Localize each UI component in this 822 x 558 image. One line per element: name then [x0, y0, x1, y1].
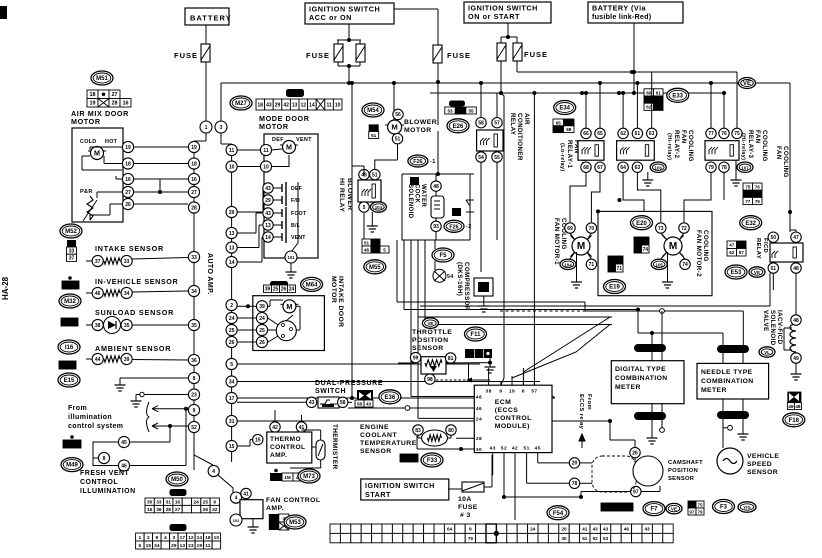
wire bus5 horizontal [237, 363, 480, 365]
wire ECM pin46 left [348, 407, 474, 409]
svg-text:E15: E15 [64, 378, 75, 384]
svg-text:5: 5 [230, 362, 233, 368]
svg-text:TEMPERATURE: TEMPERATURE [360, 440, 417, 447]
svg-text:VENT: VENT [291, 235, 306, 241]
wire to pin 78 [527, 482, 569, 484]
ignition switch ACC box [305, 3, 394, 24]
connector grid 43 [282, 473, 304, 481]
svg-text:NM: NM [729, 414, 737, 420]
svg-text:41: 41 [243, 491, 249, 497]
svg-text:48: 48 [793, 266, 799, 272]
connector grid 36/46 [62, 281, 79, 289]
wire to iacv [795, 300, 797, 315]
svg-text:COOLING: COOLING [761, 130, 768, 162]
svg-text:43: 43 [265, 211, 271, 217]
svg-text:63: 63 [635, 165, 641, 171]
svg-text:24: 24 [476, 416, 482, 422]
svg-text:VE: VE [427, 321, 433, 326]
thermistor symbol [316, 440, 325, 460]
svg-text:CONTROL: CONTROL [270, 444, 305, 451]
wire digital up left [651, 333, 653, 344]
svg-text:Y/G: Y/G [743, 505, 751, 510]
svg-text:93: 93 [433, 224, 439, 230]
wire intake 25 to rotary [268, 329, 276, 331]
svg-text:74: 74 [682, 262, 688, 268]
battery via fusible link box [588, 2, 683, 23]
ECM box [474, 385, 552, 452]
mode door motor box [264, 134, 318, 258]
svg-text:31: 31 [166, 500, 172, 506]
svg-text:15: 15 [146, 543, 152, 549]
wire rail to needle NM left [722, 333, 724, 345]
connector id M54 [362, 103, 384, 117]
wire body to pin93 [435, 218, 437, 221]
svg-text:COOLING: COOLING [782, 146, 789, 178]
wire in-vehicle to bus [132, 291, 188, 292]
wire thermistor down [320, 460, 322, 468]
auto amp pin 16 left bus [188, 173, 199, 184]
connector grid M27 [256, 99, 342, 110]
svg-text:24: 24 [289, 287, 295, 293]
svg-text:69: 69 [609, 258, 615, 264]
svg-text:FAN: FAN [680, 130, 687, 144]
wire thermo 41 up [301, 415, 303, 421]
svg-text:19: 19 [509, 388, 515, 394]
bottom terminal strip [330, 524, 673, 543]
motor2 pin 73 [656, 223, 666, 233]
wire pin48 to body [435, 191, 437, 196]
auto amp pin 13 right bus [226, 242, 237, 253]
wire bus to intake 25 [237, 329, 256, 331]
svg-text:AUTO AMP.: AUTO AMP. [206, 253, 213, 295]
intake door motor box [253, 296, 325, 351]
mode switch contact DEF [273, 187, 282, 189]
connector id M52 [60, 224, 82, 238]
wire node4 diagonal [218, 475, 233, 493]
water cock solenoid body [431, 196, 444, 218]
wire relay1 68 to motor1 69 [570, 172, 586, 222]
wire ACC split [337, 39, 361, 41]
mode switch contact VENT [273, 236, 282, 238]
svg-text:51: 51 [372, 172, 378, 178]
wire bus to node 4 [194, 432, 213, 465]
cooling fan motor-1 [570, 235, 591, 256]
wire bus to intake 24 [237, 317, 256, 319]
svg-text:ILLUMINATION: ILLUMINATION [80, 488, 136, 495]
svg-text:E26: E26 [453, 124, 464, 130]
auto amp pin 5 right bus [226, 358, 237, 369]
wire relay to ground [371, 212, 373, 222]
svg-text:CAMSHAFT: CAMSHAFT [668, 460, 703, 466]
svg-text:68: 68 [566, 127, 572, 132]
svg-text:1M: 1M [457, 108, 464, 113]
svg-text:66: 66 [583, 131, 589, 137]
svg-text:IN-VEHICLE SENSOR: IN-VEHICLE SENSOR [95, 277, 178, 286]
relay2 pin 64 [618, 162, 628, 172]
wire bus to mode 11 [237, 149, 260, 151]
node 3 [215, 121, 227, 133]
svg-text:1M: 1M [646, 98, 653, 103]
svg-text:73: 73 [642, 239, 648, 245]
wire bus15 to thermo [237, 445, 250, 447]
svg-text:37: 37 [69, 256, 75, 262]
NM connector digital bottom [634, 412, 666, 420]
wire digital down [651, 420, 653, 434]
wire to pin 3 [220, 83, 222, 121]
svg-text:25: 25 [229, 328, 235, 334]
svg-text:18: 18 [205, 535, 211, 541]
wire ACC to rail [348, 66, 350, 83]
wire battery fuse down to pin 1 [205, 62, 207, 121]
svg-text:51: 51 [582, 536, 588, 541]
svg-text:FAN CONTROL: FAN CONTROL [266, 497, 321, 504]
connector id E34 [554, 101, 576, 115]
svg-text:POSITION: POSITION [412, 337, 448, 344]
wire relay2 61 up [636, 83, 638, 128]
svg-text:27: 27 [112, 92, 118, 98]
svg-text:SOLENOID: SOLENOID [407, 184, 413, 219]
svg-text:18: 18 [125, 161, 131, 167]
svg-text:68: 68 [583, 165, 589, 171]
mode switch pin 29 [263, 195, 273, 205]
ground relay3 [731, 176, 742, 186]
wire bus23 to ground [136, 394, 188, 396]
svg-text:F5: F5 [439, 253, 447, 259]
wire AC 55 down [496, 162, 498, 240]
svg-text:29: 29 [275, 102, 281, 108]
svg-text:P&R: P&R [80, 189, 93, 195]
svg-text:35: 35 [191, 323, 197, 329]
svg-text:FUSE: FUSE [306, 51, 330, 60]
wire ECM 52 down [503, 458, 505, 497]
throttle position sensor box [421, 357, 446, 374]
cooling fan motor-2 [662, 235, 683, 256]
svg-text:FAN MOTOR-1: FAN MOTOR-1 [553, 218, 560, 265]
NM connector needle bottom [717, 411, 749, 419]
wire diode bottom [469, 212, 471, 240]
fresh vent pin 8 [98, 452, 109, 463]
relay2 pin 103 [650, 162, 666, 172]
wire 72 to motor [679, 233, 684, 240]
diode [466, 200, 474, 212]
svg-text:9: 9 [193, 408, 196, 414]
svg-text:54: 54 [478, 155, 484, 161]
needle combination meter box [697, 363, 769, 399]
svg-text:42: 42 [273, 475, 279, 480]
auto amp pin 10 right bus [226, 161, 237, 172]
connector X cell [279, 522, 289, 530]
blower relay pin 48 [359, 169, 369, 179]
svg-text:33: 33 [124, 259, 130, 265]
svg-text:33: 33 [156, 500, 162, 506]
relay3 pin 75 [732, 128, 742, 138]
ficd pin 47 [791, 232, 801, 242]
svg-text:97: 97 [626, 505, 632, 511]
thermo control amp box [267, 432, 312, 463]
svg-text:M53: M53 [289, 520, 301, 526]
wire relay3 75 up [736, 72, 738, 128]
auto amp pin 23 left bus [188, 389, 199, 400]
wire to relay pin 51 [375, 160, 398, 169]
node 4b [230, 492, 241, 503]
svg-text:13: 13 [292, 102, 298, 108]
ground bus23 [131, 397, 142, 407]
mode door pin 10 [260, 161, 271, 172]
svg-text:9: 9 [499, 388, 502, 394]
relay3 pin 79 [706, 162, 716, 172]
svg-text:VEHICLE: VEHICLE [747, 453, 779, 460]
wire motor1 ground [576, 252, 578, 278]
svg-text:33: 33 [191, 255, 197, 261]
auto amp pin 52 left bus [188, 421, 199, 432]
dps pin 43 [306, 397, 316, 407]
ground digital meter [647, 434, 658, 444]
connector grid W5/36 [63, 440, 81, 448]
svg-text:(Hi-relay): (Hi-relay) [740, 133, 746, 160]
wire ECM pin19 up [511, 376, 513, 385]
NM connector needle top [717, 345, 749, 353]
wire onstart left fuse down [500, 61, 502, 93]
svg-text:26: 26 [203, 507, 209, 513]
pin 101 [285, 251, 297, 263]
connector tab M50 [170, 489, 187, 496]
connector grid 44/39 [59, 361, 76, 369]
svg-text:RELAY-1: RELAY-1 [566, 140, 573, 169]
svg-text:103: 103 [655, 165, 663, 170]
svg-text:13: 13 [229, 245, 235, 251]
mode door motor M [280, 141, 298, 154]
svg-text:SENSOR: SENSOR [360, 448, 392, 455]
wire tps vertical [468, 363, 470, 380]
fresh vent pin 45 [118, 436, 129, 447]
auto amp pin 34 left bus [188, 285, 199, 296]
connector id E53 [725, 265, 747, 279]
ambient sensor resistor [104, 356, 120, 362]
svg-text:9: 9 [469, 527, 472, 532]
trunk vertical 2 [403, 240, 405, 310]
svg-text:49: 49 [793, 356, 799, 362]
intake sensor pin 33 [121, 255, 132, 266]
illumination arrow top [152, 406, 188, 412]
svg-text:COOLING: COOLING [702, 230, 709, 262]
svg-text:-1: -1 [430, 159, 436, 165]
svg-text:RELAY-2: RELAY-2 [673, 130, 680, 159]
wire compressor [434, 240, 436, 249]
svg-text:17: 17 [229, 396, 235, 402]
svg-text:46: 46 [95, 291, 101, 297]
svg-text:30: 30 [476, 447, 482, 453]
svg-text:75: 75 [734, 131, 740, 137]
svg-text:35: 35 [62, 320, 68, 326]
tps pin 81 [445, 353, 455, 363]
auto amp right bus [231, 144, 233, 462]
svg-text:19: 19 [197, 543, 203, 549]
svg-text:M: M [391, 123, 397, 132]
svg-text:1M: 1M [271, 524, 277, 529]
tps pin 99 [410, 352, 420, 362]
svg-text:1: 1 [205, 125, 208, 131]
mode switch pin 13 [263, 220, 273, 230]
intake sensor pin 37 [92, 255, 103, 266]
svg-text:60: 60 [646, 90, 652, 95]
fuse onstart left [497, 43, 506, 61]
svg-text:CONDITIONER: CONDITIONER [516, 113, 523, 161]
svg-text:51: 51 [364, 240, 370, 245]
wire pot top [96, 192, 98, 198]
svg-text:80: 80 [448, 428, 454, 434]
ignition switch start box [361, 479, 449, 500]
svg-text:VENT: VENT [296, 137, 312, 143]
svg-text:ON or START: ON or START [468, 12, 520, 21]
wire tps to ground [446, 362, 490, 364]
connector id VE3 [422, 318, 438, 328]
svg-text:43: 43 [366, 401, 372, 406]
svg-text:E34: E34 [559, 106, 570, 112]
connector grid 76/75 [688, 501, 704, 515]
relay2 pin 63 [647, 128, 657, 138]
connector tab M27 [286, 89, 304, 97]
wire ECM 42 down [514, 458, 516, 520]
wire battery to fuse [205, 25, 207, 44]
svg-text:74: 74 [642, 247, 648, 253]
svg-text:65: 65 [556, 120, 562, 125]
connector grid 49/48 [787, 403, 801, 410]
connector id M73 [298, 469, 320, 483]
svg-text:F33: F33 [427, 458, 438, 464]
svg-text:18: 18 [258, 102, 264, 108]
connector id F33 [421, 453, 443, 467]
svg-text:23: 23 [191, 392, 197, 398]
svg-text:102: 102 [233, 518, 240, 523]
svg-text:METER: METER [615, 384, 641, 391]
svg-text:13: 13 [265, 223, 271, 229]
svg-text:37: 37 [95, 259, 101, 265]
svg-text:COMBINATION: COMBINATION [615, 375, 668, 382]
svg-text:51: 51 [371, 133, 377, 139]
wire bus to intake 39 [237, 305, 256, 307]
connector id M50 [166, 472, 188, 486]
wire ECM pin24 left [418, 417, 474, 419]
auto amp pin 19 left bus [188, 141, 199, 152]
wire bus17 horizontal [237, 397, 555, 399]
svg-text:13: 13 [180, 543, 186, 549]
wire 71 to motor [587, 252, 591, 259]
svg-text:66: 66 [556, 127, 562, 132]
connector id E32 [740, 216, 762, 230]
trunk vertical 5 [424, 240, 426, 325]
svg-text:VL: VL [764, 350, 770, 355]
svg-text:29: 29 [229, 210, 235, 216]
connector id E36 [379, 390, 401, 404]
intake door pin 26 [256, 336, 267, 347]
ground fan amp [248, 523, 259, 533]
wire ect left [417, 435, 419, 438]
ground tps [485, 363, 496, 373]
ground iacv [791, 370, 802, 380]
svg-text:72: 72 [635, 239, 641, 245]
wire ficd 48 down [795, 273, 797, 300]
dps pin 58 [338, 397, 348, 407]
ficd pin 51 [768, 263, 778, 273]
svg-text:HA-28: HA-28 [1, 276, 10, 300]
motor1 pin 70 [586, 223, 596, 233]
connector grid bottom-left [136, 533, 221, 549]
wire fuse3 right [484, 486, 492, 488]
svg-text:ENGINE: ENGINE [360, 424, 389, 431]
FICD relay box [770, 243, 803, 262]
mode door pin 11 [260, 144, 271, 155]
svg-text:11: 11 [205, 543, 210, 549]
fresh vent pin 46 [118, 460, 129, 471]
wire bus8 to ground [120, 377, 188, 379]
wire intake 26 to rotary [268, 336, 278, 342]
svg-text:VE: VE [743, 81, 751, 87]
wire relay2 64 down [623, 172, 644, 211]
auto amp pin 11 right bus [226, 144, 237, 155]
wire 105 to motor [661, 252, 667, 259]
rail y72 [517, 71, 737, 73]
svg-text:4: 4 [235, 495, 238, 501]
svg-text:F/D: F/D [291, 198, 300, 204]
wire 97 right [641, 491, 660, 493]
thermo pin 15 [253, 434, 263, 444]
svg-text:52: 52 [501, 446, 507, 452]
svg-text:48: 48 [795, 404, 801, 409]
connector grid 35/38 [61, 318, 78, 326]
wire digital up right [661, 311, 663, 344]
black connector 82 [410, 177, 419, 185]
svg-text:FICD: FICD [762, 238, 768, 253]
svg-text:75: 75 [745, 185, 751, 190]
blower motor M [385, 120, 404, 134]
svg-text:25: 25 [259, 328, 265, 334]
svg-text:67: 67 [597, 165, 603, 171]
svg-text:26: 26 [125, 202, 131, 208]
black connector 51a [369, 124, 379, 131]
rail y83 [221, 82, 740, 84]
svg-text:70: 70 [589, 226, 595, 232]
compressor connector 54 [433, 269, 446, 282]
wire bus31 horizontal [237, 420, 610, 422]
svg-text:64: 64 [656, 105, 662, 110]
auto amp pin 14 right bus [226, 256, 237, 267]
svg-text:28: 28 [476, 436, 482, 442]
svg-text:RELAY-3: RELAY-3 [747, 130, 754, 159]
svg-text:1M: 1M [745, 192, 752, 197]
svg-text:FAN: FAN [775, 146, 782, 160]
auto amp pin 24 right bus [226, 312, 237, 323]
corner 585 [584, 302, 586, 311]
svg-text:10A: 10A [458, 496, 472, 503]
wire connector to ground [489, 356, 491, 363]
wire relay3 79 to motor2 72 [684, 172, 711, 222]
compressor clutch coil [474, 278, 493, 296]
svg-text:24: 24 [530, 527, 536, 532]
svg-text:1C: 1C [373, 240, 380, 245]
svg-text:78: 78 [572, 481, 578, 487]
svg-text:4: 4 [164, 535, 167, 541]
trunk vertical 3 [410, 240, 412, 397]
svg-text:43: 43 [490, 446, 496, 452]
connector id F7 [643, 502, 665, 516]
black connector 58/43 [357, 390, 373, 400]
svg-text:(DKS-16H): (DKS-16H) [456, 262, 463, 296]
svg-text:F54: F54 [553, 511, 564, 517]
trunk vertical 4 [417, 240, 419, 418]
svg-text:34: 34 [191, 289, 197, 295]
wire E26 down [437, 131, 439, 174]
wire tps right [472, 379, 490, 381]
